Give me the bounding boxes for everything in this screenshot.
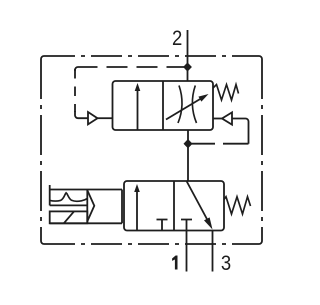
V1 adjustable arrow xyxy=(166,94,209,120)
wire V1 to V2 xyxy=(187,130,189,181)
amplifier chevron base xyxy=(86,190,88,224)
node B junction dot xyxy=(184,139,193,148)
V1 restrictor right arc xyxy=(192,86,196,124)
diaphragm actuator bottom rail xyxy=(50,222,122,224)
V2 blocked port T (left cell) xyxy=(157,220,168,231)
3/2 valve V2 body xyxy=(124,181,224,231)
pilot line 12 vertical (dashed) xyxy=(74,69,76,112)
V1 restrictor left arc xyxy=(178,86,182,124)
diaphragm membrane wave xyxy=(50,193,88,201)
V1 free-flow arrow (left cell) xyxy=(135,83,141,130)
amplifier chevron slants xyxy=(87,190,94,221)
diaphragm box bottom edge xyxy=(50,204,88,206)
spring S1 (flow valve return) xyxy=(213,85,239,101)
pilot line 12 horizontal (dashed) xyxy=(78,66,188,68)
3/2 valve V2 cell divider xyxy=(173,181,175,231)
pilot loop wire bottom dash a xyxy=(223,143,249,145)
adjustment diagonal xyxy=(64,211,74,223)
enclosure boundary (dash-dot assembly frame) xyxy=(41,56,262,244)
spring S2 (3/2 valve return) xyxy=(224,197,251,214)
V2 flow arrow 2-3 (right cell) xyxy=(187,181,213,230)
flow control valve V1 cell divider xyxy=(162,81,164,130)
wire pilot to flow valve xyxy=(98,117,113,119)
wire valve to Z2 xyxy=(213,118,222,120)
adjustment box xyxy=(50,211,88,223)
pilot loop wire right xyxy=(232,119,249,144)
port 3 stem xyxy=(212,231,214,272)
pilot loop wire bottom dash b xyxy=(188,143,215,145)
port 2 stem xyxy=(187,30,189,81)
diaphragm actuator top rail xyxy=(50,189,122,191)
pilot line 12 lower corner xyxy=(75,111,88,118)
svg-text:2: 2 xyxy=(172,27,182,51)
node A junction dot xyxy=(183,62,192,71)
port 1 stem xyxy=(186,231,188,272)
label 1 xyxy=(172,256,177,270)
pilot actuator triangle Z1 (left, points right) xyxy=(88,112,98,124)
V2 flow arrow 1-2 (left cell) xyxy=(134,184,140,231)
diaphragm actuator right closure xyxy=(121,190,123,224)
pilot actuator triangle Z2 (right, points left) xyxy=(222,112,232,124)
plunger bar xyxy=(49,185,51,205)
pilot line 12 corner xyxy=(75,67,78,71)
svg-text:3: 3 xyxy=(221,252,231,276)
V2 blocked port T (right cell) xyxy=(181,220,192,231)
flow control valve V1 body xyxy=(113,81,214,130)
